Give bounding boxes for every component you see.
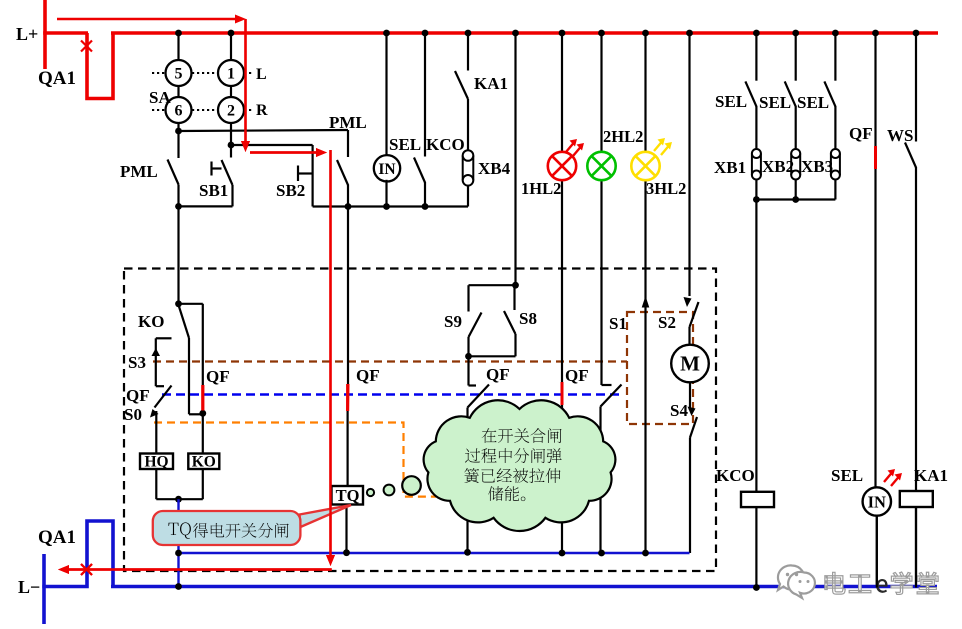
svg-text:HQ: HQ: [144, 454, 168, 471]
svg-text:QF: QF: [206, 367, 230, 386]
svg-text:WS: WS: [887, 126, 913, 145]
svg-text:5: 5: [175, 66, 183, 83]
svg-text:XB2: XB2: [762, 157, 794, 176]
svg-text:SB1: SB1: [199, 181, 228, 200]
svg-text:KA1: KA1: [914, 466, 948, 485]
svg-text:L: L: [256, 66, 267, 83]
svg-text:SEL: SEL: [759, 93, 791, 112]
svg-text:S0: S0: [124, 405, 142, 424]
svg-text:S4: S4: [670, 401, 688, 420]
svg-text:KO: KO: [138, 312, 164, 331]
svg-text:3HL2: 3HL2: [646, 179, 686, 198]
svg-text:KA1: KA1: [474, 74, 508, 93]
svg-text:QF: QF: [565, 366, 589, 385]
svg-text:1HL2: 1HL2: [521, 179, 561, 198]
svg-text:TQ: TQ: [336, 486, 360, 505]
svg-text:KO: KO: [192, 454, 216, 471]
svg-text:2: 2: [227, 103, 235, 120]
svg-text:S1: S1: [609, 314, 627, 333]
svg-text:XB1: XB1: [714, 158, 746, 177]
svg-text:QF: QF: [126, 386, 150, 405]
svg-text:SEL: SEL: [831, 466, 863, 485]
svg-text:IN: IN: [868, 493, 886, 512]
svg-text:M: M: [680, 352, 700, 376]
svg-text:QF: QF: [849, 124, 873, 143]
svg-text:L+: L+: [16, 24, 38, 44]
svg-text:XB4: XB4: [478, 159, 511, 178]
svg-text:KCO: KCO: [716, 466, 755, 485]
svg-text:S8: S8: [519, 309, 537, 328]
svg-text:S9: S9: [444, 312, 462, 331]
svg-text:QF: QF: [356, 366, 380, 385]
svg-text:SEL: SEL: [797, 93, 829, 112]
svg-text:R: R: [256, 102, 268, 119]
svg-text:6: 6: [175, 103, 183, 120]
svg-text:1: 1: [227, 66, 235, 83]
svg-text:KCO: KCO: [426, 135, 465, 154]
svg-text:PML: PML: [329, 113, 367, 132]
svg-text:QA1: QA1: [38, 68, 76, 89]
svg-text:S2: S2: [658, 313, 676, 332]
svg-text:IN: IN: [378, 161, 395, 178]
svg-text:QA1: QA1: [38, 527, 76, 548]
svg-text:2HL2: 2HL2: [603, 127, 643, 146]
svg-text:L−: L−: [18, 577, 40, 597]
svg-text:QF: QF: [486, 365, 510, 384]
svg-text:SA: SA: [149, 88, 171, 107]
svg-text:SEL: SEL: [389, 135, 421, 154]
svg-text:S3: S3: [128, 353, 146, 372]
svg-text:XB3: XB3: [801, 157, 833, 176]
svg-text:SB2: SB2: [276, 181, 305, 200]
svg-text:PML: PML: [120, 162, 158, 181]
svg-text:SEL: SEL: [715, 92, 747, 111]
